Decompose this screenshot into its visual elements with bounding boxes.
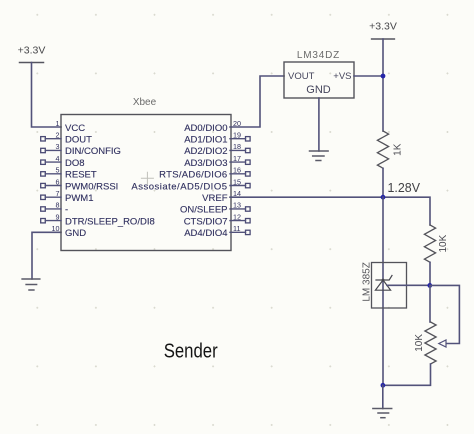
temperature sensor U2 LM34DZ body: [284, 62, 354, 98]
bottom junction: [381, 383, 386, 388]
svg-text:DOUT: DOUT: [65, 135, 92, 146]
svg-text:1.28V: 1.28V: [388, 180, 421, 195]
wire +VS to +3.3V rail: [354, 75, 383, 77]
wire Xbee GND pin 10 to ground: [32, 232, 61, 279]
svg-text:GND: GND: [306, 84, 331, 96]
svg-text:DIN/CONFIG: DIN/CONFIG: [65, 146, 121, 157]
svg-text:8: 8: [56, 201, 60, 210]
svg-text:Assosiate/AD5/DIO5: Assosiate/AD5/DIO5: [131, 181, 227, 192]
D1 zener diode symbol: [375, 276, 392, 291]
pin 8 -: [41, 201, 68, 216]
pin 14 VREF: [202, 189, 241, 204]
svg-text:AD1/DIO1: AD1/DIO1: [184, 135, 227, 146]
svg-text:VOUT: VOUT: [288, 71, 315, 82]
pin 19 AD1/DIO1: [184, 131, 250, 146]
pin 15 Assosiate/AD5/DIO5: [131, 177, 250, 192]
svg-text:18: 18: [233, 142, 241, 151]
svg-text:4: 4: [56, 154, 60, 163]
pin 6 PWM0/RSSI: [41, 177, 119, 192]
wire bottom junction to ground: [382, 385, 384, 408]
svg-text:AD2/DIO2: AD2/DIO2: [184, 146, 227, 157]
pin 4 DO8: [41, 154, 85, 169]
svg-text:GND: GND: [65, 228, 86, 239]
wire VREF net (pin 14 to node and corner): [230, 197, 430, 225]
pin 10 GND: [52, 224, 87, 239]
svg-text:LM34DZ: LM34DZ: [297, 50, 340, 61]
svg-text:16: 16: [233, 166, 241, 175]
pin 7 PWM1: [41, 189, 94, 204]
svg-text:6: 6: [56, 177, 60, 186]
svg-text:1: 1: [56, 119, 60, 128]
pin 17 AD3/DIO3: [184, 154, 250, 169]
pin 3 DIN/CONFIG: [41, 142, 121, 157]
pin 2 DOUT: [41, 131, 92, 146]
power +3.3V (right): [369, 21, 397, 40]
pot wiper arrow: [439, 340, 446, 347]
svg-text:VCC: VCC: [65, 123, 85, 134]
svg-text:PWM0/RSSI: PWM0/RSSI: [65, 181, 118, 192]
svg-text:DTR/SLEEP_RO/DI8: DTR/SLEEP_RO/DI8: [65, 216, 155, 227]
svg-text:LM 385Z: LM 385Z: [361, 262, 372, 301]
pin 12 CTS/DIO7: [184, 212, 250, 227]
svg-text:12: 12: [233, 212, 241, 221]
svg-text:10: 10: [52, 224, 60, 233]
svg-text:Sender: Sender: [164, 341, 218, 363]
wire D1 cathode tap to junction: [387, 284, 430, 286]
svg-text:Xbee: Xbee: [133, 97, 157, 108]
wire 1.28V node down through D1 to bottom junction: [382, 197, 384, 385]
wire R1 bottom to VREF node: [382, 168, 384, 197]
svg-text:11: 11: [233, 224, 240, 233]
svg-text:15: 15: [233, 177, 241, 186]
svg-text:10K: 10K: [414, 334, 425, 352]
pin 5 RESET: [41, 166, 97, 181]
pin 11 AD4/DIO4: [184, 224, 250, 239]
ground (below LM34DZ): [310, 151, 329, 161]
node 1.28V: [381, 195, 386, 200]
svg-text:AD3/DIO3: AD3/DIO3: [184, 158, 227, 169]
svg-text:2: 2: [56, 131, 60, 140]
resistor R1 1K: [377, 131, 388, 168]
IC U1 Xbee body: [61, 115, 231, 251]
svg-text:3: 3: [56, 142, 60, 151]
wire +3.3V to VCC pin 1: [32, 63, 62, 128]
ground (below Xbee): [22, 279, 40, 290]
svg-text:7: 7: [56, 189, 60, 198]
wire LM34DZ GND pin to ground: [318, 98, 320, 151]
svg-text:17: 17: [233, 154, 241, 163]
pin 18 AD2/DIO2: [184, 142, 250, 157]
svg-text:DO8: DO8: [65, 158, 85, 169]
origin cross U1: [141, 172, 153, 184]
svg-text:19: 19: [233, 131, 241, 140]
wire junction to potentiometer top: [429, 285, 431, 322]
zener reference D1 LM385Z body: [372, 263, 407, 309]
wire pot bottom to bottom junction: [383, 364, 431, 385]
pin 9 DTR/SLEEP_RQ/DI8: [41, 212, 155, 227]
svg-text:-: -: [65, 205, 68, 216]
svg-text:9: 9: [56, 212, 60, 221]
svg-text:+3.3V: +3.3V: [18, 45, 46, 57]
wire junction to pot wiper: [430, 285, 459, 343]
svg-text:1K: 1K: [392, 143, 403, 156]
svg-text:+VS: +VS: [333, 71, 351, 82]
wire AD0/DIO0 pin 20 to LM34DZ VOUT: [230, 76, 284, 127]
ground (bottom right): [373, 409, 392, 418]
power +3.3V (left): [18, 45, 46, 63]
junction R2 / D1 / pot: [427, 283, 432, 288]
pin 16 RTS/AD6/DIO6: [159, 166, 250, 181]
svg-text:ON/SLEEP: ON/SLEEP: [180, 205, 228, 216]
svg-text:AD4/DIO4: AD4/DIO4: [184, 228, 227, 239]
svg-text:AD0/DIO0: AD0/DIO0: [184, 123, 227, 134]
junction +VS / +3.3V: [381, 74, 386, 79]
pin 13 ON/SLEEP: [180, 201, 250, 216]
svg-text:+3.3V: +3.3V: [369, 21, 397, 33]
svg-text:VREF: VREF: [202, 193, 228, 204]
potentiometer R3 10K: [425, 322, 436, 364]
svg-text:CTS/DIO7: CTS/DIO7: [184, 216, 228, 227]
pin 20 AD0/DIO0: [184, 119, 241, 134]
svg-text:13: 13: [233, 201, 241, 210]
wire +3.3V rail down to R1: [382, 39, 384, 131]
wire R2 bottom to junction: [429, 262, 431, 285]
svg-text:10K: 10K: [438, 234, 449, 252]
svg-text:RESET: RESET: [65, 170, 97, 181]
svg-text:PWM1: PWM1: [65, 193, 94, 204]
resistor R2 10K: [424, 225, 435, 262]
svg-text:5: 5: [56, 166, 60, 175]
pin 1 VCC: [56, 119, 86, 134]
svg-text:RTS/AD6/DIO6: RTS/AD6/DIO6: [159, 170, 227, 181]
